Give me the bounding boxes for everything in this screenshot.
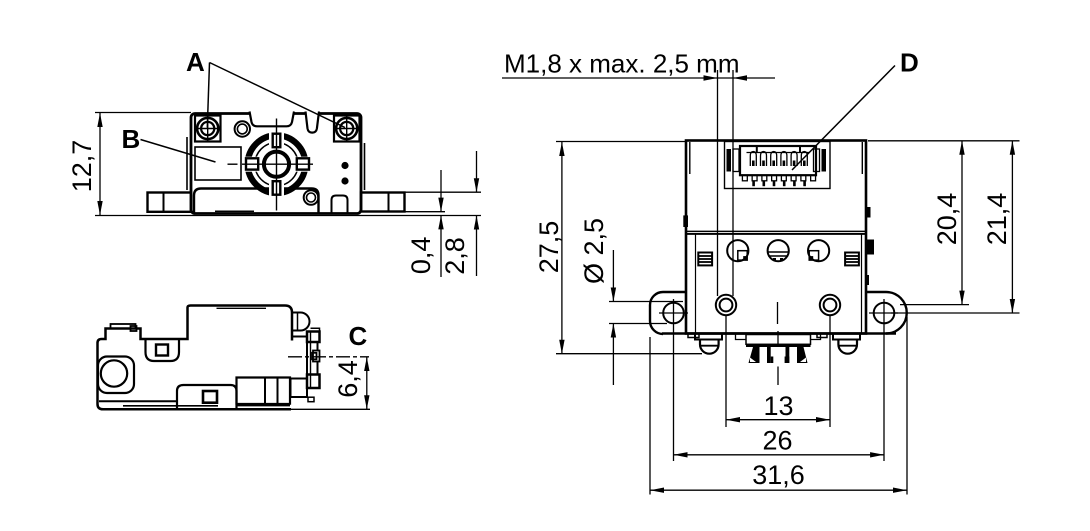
svg-text:20,4: 20,4	[932, 193, 962, 246]
svg-text:27,5: 27,5	[534, 221, 564, 274]
svg-text:M1,8 x max. 2,5 mm: M1,8 x max. 2,5 mm	[504, 49, 740, 79]
svg-text:12,7: 12,7	[67, 140, 97, 193]
svg-text:A: A	[186, 47, 205, 77]
svg-text:D: D	[900, 48, 919, 78]
svg-text:C: C	[349, 321, 368, 351]
svg-text:2,8: 2,8	[440, 237, 470, 275]
svg-text:6,4: 6,4	[333, 360, 363, 398]
svg-text:B: B	[122, 124, 141, 154]
svg-text:26: 26	[762, 425, 792, 455]
svg-text:21,4: 21,4	[982, 193, 1012, 246]
svg-text:13: 13	[763, 391, 793, 421]
svg-text:Ø 2,5: Ø 2,5	[579, 218, 609, 284]
svg-text:31,6: 31,6	[752, 460, 805, 490]
svg-text:0,4: 0,4	[406, 237, 436, 275]
